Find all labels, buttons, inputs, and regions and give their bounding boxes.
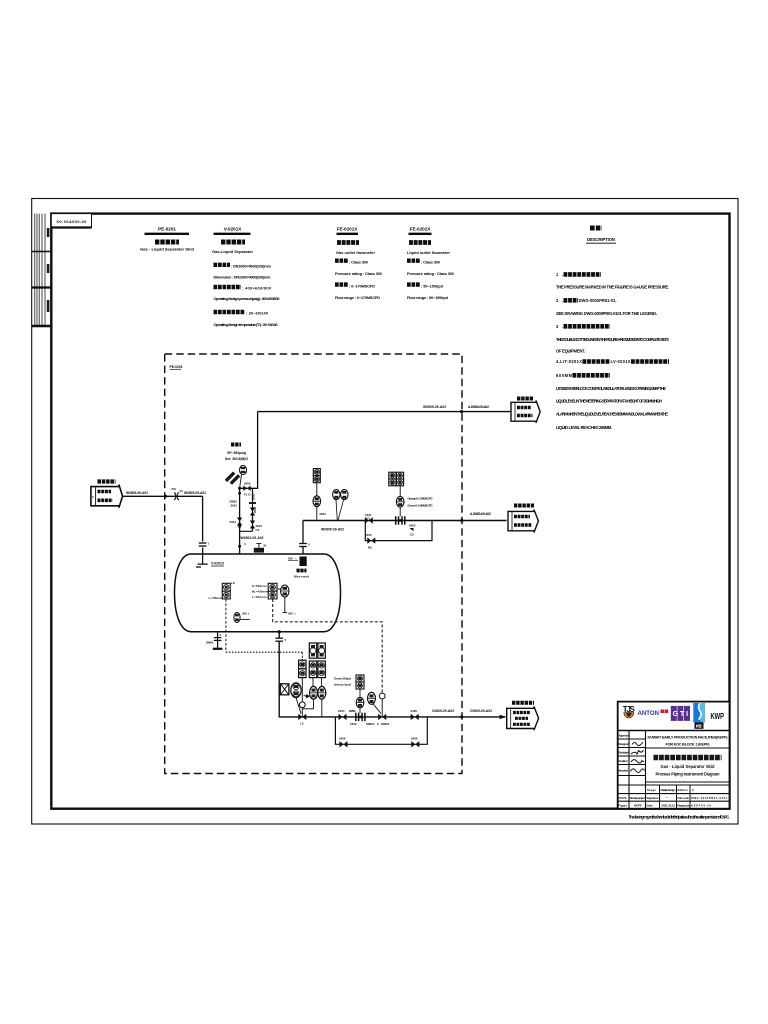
FIT bubble liquid [359, 689, 361, 697]
svg-text:ANTON: ANTON [638, 710, 660, 717]
svg-text:Stage: Stage [647, 788, 656, 792]
valve 2002 on flare branch [243, 486, 247, 491]
valve 2001 on PSV header [237, 518, 242, 522]
svg-text:Flow range : 0~170MSCFD: Flow range : 0~170MSCFD [335, 295, 380, 300]
logo row divider [618, 730, 730, 732]
header column 4: FE-0202X Liquid outlet flowmeter [407, 227, 454, 300]
svg-text:V-0201X: V-0201X [211, 562, 225, 566]
svg-text:KOC: KOC [696, 724, 703, 729]
svg-text:H=600mm: H=600mm [252, 584, 267, 588]
flange pair on liquid drop [275, 638, 283, 641]
svg-text:S0804: S0804 [381, 722, 390, 726]
svg-text:Operating /design pressure(psi: Operating /design pressure(psig) : 400×6… [214, 296, 280, 301]
valve 2406 on bypass [340, 741, 344, 747]
svg-text:Project code: Project code [677, 804, 690, 808]
flange pair on inlet riser [199, 543, 207, 546]
svg-text:W0805-09-A02: W0805-09-A02 [321, 528, 344, 532]
gauge glass LG square [222, 583, 230, 591]
pressure instrument stack PY [313, 469, 320, 476]
logo CTI purple blocks [671, 706, 690, 721]
leaders from gauges to line [336, 500, 344, 521]
svg-text:DWG-0000PR01-0101: DWG-0000PR01-0101 [691, 796, 728, 800]
svg-text:2405: 2405 [411, 709, 418, 713]
logo TJS crest [623, 705, 636, 718]
relief valve PSV symbol [225, 471, 240, 486]
gas bypass loop [365, 521, 432, 541]
drawing title chinese [654, 755, 722, 760]
wire: PSV leader to tee [240, 475, 242, 489]
svg-text:File code: File code [678, 796, 690, 800]
valve on purge branch lower [250, 521, 255, 525]
signer row lines [618, 739, 730, 801]
svg-text:L=300mm: L=300mm [252, 595, 267, 599]
valve NC on gas bypass [367, 537, 371, 543]
liquid FQI squares [356, 675, 364, 682]
logo anton chinese red [661, 710, 665, 714]
vessel V-0201X shell [175, 554, 341, 632]
svg-text:PE-0201: PE-0201 [170, 365, 183, 369]
level setpoint text block [252, 584, 268, 599]
svg-text:SEE DRAWING DWG-0000PR01-0101: SEE DRAWING DWG-0000PR01-0101 FOR THE LE… [556, 311, 657, 316]
valve 2404 on liquid line [339, 714, 343, 720]
svg-text:Set: 394.6(M)G: Set: 394.6(M)G [225, 457, 248, 461]
svg-text:Edition: Edition [678, 788, 688, 792]
transmitter LIT-0201X bubble [277, 588, 281, 590]
node: boundary crossing on inlet [164, 495, 167, 498]
svg-text:: 400×600/900: : 400×600/900 [242, 286, 271, 291]
spec break symbol [174, 492, 178, 500]
svg-text:Gas - Liquid Separator Skid: Gas - Liquid Separator Skid [140, 247, 195, 252]
svg-text:C0805-09-A02: C0805-09-A02 [470, 709, 492, 713]
FIT bubble on FE [399, 507, 401, 516]
svg-text:Detailed design: Detailed design [661, 788, 676, 792]
svg-text:Date: Date [647, 804, 654, 808]
svg-text:Develop project: Develop project [630, 796, 645, 800]
transmitter PIT bubble [316, 483, 318, 496]
svg-text:KEPF04-03: KEPF04-03 [691, 804, 712, 808]
svg-text:LIQUID LEVEL IN THE METERING S: LIQUID LEVEL IN THE METERING SEPARATOR A… [556, 399, 662, 404]
svg-text:OF EQUIPMENT.: OF EQUIPMENT. [556, 348, 585, 353]
svg-text:Figure: Figure [618, 804, 627, 808]
svg-text:t: t [295, 612, 296, 616]
svg-text:Approved: Approved [619, 734, 629, 738]
svg-text:Flow range : 50~150bpd: Flow range : 50~150bpd [407, 295, 449, 300]
gas outlet riser with flanges [302, 521, 304, 555]
mist eliminator [300, 557, 307, 567]
svg-text:Green:50bpd: Green:50bpd [334, 677, 351, 681]
connector: liquid to metering separator [507, 703, 539, 730]
wire: liquid outlet drop and main line [279, 632, 505, 717]
svg-text:0801: 0801 [320, 512, 327, 516]
svg-text:2001: 2001 [231, 504, 238, 508]
drain nozzle with blind [217, 632, 219, 649]
local gauges PI TI bubbles [333, 490, 340, 500]
svg-text:Wire mesh: Wire mesh [294, 575, 309, 579]
control valve LCV [299, 702, 305, 708]
wire: PSV header vertical into vessel [239, 488, 241, 554]
wire: gas outlet line [303, 520, 507, 522]
svg-text:Dimension : DN1000×4000(S/S)mm: Dimension : DN1000×4000(S/S)mm [214, 274, 272, 279]
LIT lower tap [284, 597, 286, 613]
svg-text:KWP: KWP [711, 711, 725, 721]
svg-text:W0805-09-A01: W0805-09-A01 [126, 491, 148, 495]
instrument bubble PSV tag [239, 465, 246, 474]
svg-text:X: X [92, 495, 94, 499]
svg-text:Process Piping Instrument Diag: Process Piping Instrument Diagram [656, 772, 720, 777]
svg-text:200: 200 [288, 612, 293, 616]
svg-text:C2: C2 [256, 528, 260, 532]
svg-text:DESCRIPTION: DESCRIPTION [587, 237, 615, 242]
svg-text:2402: 2402 [409, 524, 416, 528]
svg-text:KEPF: KEPF [634, 804, 642, 808]
wire: tee to flare riser [240, 412, 258, 489]
svg-text:t: t [296, 557, 297, 561]
svg-text:DN50: DN50 [206, 641, 214, 645]
svg-text:FL O: FL O [244, 493, 251, 497]
valve 2405 on liquid line [411, 714, 415, 720]
svg-text:Pressure rating : Class 300: Pressure rating : Class 300 [335, 271, 382, 276]
svg-text:KUWAIT EARLY PRODUCTION FACILI: KUWAIT EARLY PRODUCTION FACILITIES(KEPF) [648, 736, 729, 740]
LY relay squares [299, 660, 306, 669]
logo KOC blue flag [693, 703, 705, 729]
node boundary crossing liquid line [460, 715, 463, 718]
svg-text:2001: 2001 [230, 520, 237, 524]
svg-text:PE-0201: PE-0201 [158, 227, 176, 232]
svg-text:Green:0-1.0MMSCFD: Green:0-1.0MMSCFD [408, 504, 433, 508]
svg-text:300: 300 [288, 557, 293, 561]
svg-text:LIQUID LEVEL REACHES 250MM.: LIQUID LEVEL REACHES 250MM. [556, 425, 612, 430]
svg-text:The drawing may not be downloa: The drawing may not be downloaded to thi… [628, 815, 729, 820]
wires grid to bubbles and to line [312, 678, 314, 687]
svg-text:A.DN80-09-A02: A.DN80-09-A02 [468, 405, 489, 409]
svg-text:SP: 650psig: SP: 650psig [227, 451, 246, 455]
title block outer box [618, 702, 730, 809]
signal: LIT dashed to LV [273, 599, 383, 693]
svg-text:PG: PG [172, 487, 177, 491]
connector: to flare [511, 399, 540, 423]
node tee at PSV [238, 487, 241, 490]
svg-text:8MM: 8MM [349, 709, 356, 713]
node at vessel PSV nozzle [238, 545, 241, 548]
alarm squares 2x2 grid [309, 643, 316, 658]
relief valve PSV-0201X label [225, 445, 248, 462]
svg-text:Gas outlet flowmeter: Gas outlet flowmeter [336, 250, 375, 255]
valve on purge branch upper [250, 508, 255, 512]
svg-text:X0-00A000-00: X0-00A000-00 [56, 220, 86, 224]
wire: inlet line to vessel [123, 496, 203, 554]
outer border frame [32, 199, 738, 825]
svg-text:: 0~170MSCFD: : 0~170MSCFD [349, 283, 375, 288]
svg-text:00126: 00126 [618, 796, 626, 800]
node boundary crossing flare line [460, 410, 463, 413]
svg-text:C0805-09-A02: C0805-09-A02 [432, 709, 454, 713]
svg-text:W0805-09-A01: W0805-09-A01 [184, 491, 206, 495]
manway M nozzle [254, 548, 264, 553]
svg-text:2002: 2002 [252, 494, 256, 500]
svg-text:L=750mm: L=750mm [209, 596, 223, 600]
connector: gas to downstream [508, 506, 538, 533]
blind spade on purge branch [249, 502, 256, 504]
svg-text:: Class 300: : Class 300 [349, 259, 368, 264]
svg-text:2405: 2405 [411, 737, 418, 741]
displacer chamber LT squares [268, 583, 277, 591]
svg-text:Pressure rating : Class 300: Pressure rating : Class 300 [407, 271, 454, 276]
svg-text:Audited: Audited [619, 759, 628, 763]
FE-0202X orifice on liquid line [356, 713, 365, 721]
svg-text:: 30~60/140: : 30~60/140 [246, 311, 268, 316]
svg-text:ALARM WHEN THE LIQUID LEVEL RE: ALARM WHEN THE LIQUID LEVEL REACHES 600M… [556, 412, 668, 417]
node liquid outlet at vessel bottom [278, 630, 281, 633]
header column 3: FE-0201X Gas outlet flowmeter [335, 227, 382, 300]
svg-text:200: 200 [242, 612, 247, 616]
svg-text:C2: C2 [410, 533, 414, 537]
control valve LV-0201X [379, 693, 385, 699]
svg-text:600MM: 600MM [556, 373, 573, 378]
level gauge circle with leader [234, 613, 240, 623]
svg-text:Standard: Standard [618, 769, 628, 773]
bypass purge branch [240, 488, 253, 531]
notes header (DESCRIPTION) [586, 228, 616, 243]
signal: LG dashed down and dotted across [225, 599, 227, 652]
inner border frame [51, 214, 729, 809]
liquid bypass loop [335, 717, 427, 744]
svg-text:Signature: Signature [647, 796, 659, 800]
shared display squares FIC [389, 472, 396, 479]
svg-text:4.LIT-0201X: 4.LIT-0201X [556, 359, 582, 364]
svg-text:(2"): (2") [365, 516, 370, 520]
valve 2407 on bypass [411, 741, 415, 747]
svg-text:2021.03.13: 2021.03.13 [662, 804, 676, 808]
svg-text:(about:bpd): (about:bpd) [334, 683, 351, 687]
svg-text:2406: 2406 [339, 737, 346, 741]
svg-text:2403: 2403 [365, 533, 372, 537]
bottom table cells [660, 785, 691, 809]
svg-text:Liquid outlet flowmeter: Liquid outlet flowmeter [407, 250, 450, 255]
level controller LIC bubble pair [291, 683, 301, 698]
svg-text:DWG-0002PR01-01.: DWG-0002PR01-01. [579, 298, 617, 303]
top-left drawing number box [51, 214, 91, 228]
svg-text:Rechecked: Rechecked [619, 751, 629, 755]
svg-text:Operating /design temperature(: Operating /design temperature(°C) : 30~6… [214, 322, 278, 327]
left margin revision strip [35, 214, 45, 326]
positioner bubble LV [368, 692, 376, 704]
svg-text:S0804: S0804 [366, 722, 375, 726]
flow element FE-0201X orifice [396, 516, 405, 524]
signatures [631, 742, 645, 773]
svg-text:(2): (2) [180, 489, 183, 493]
svg-text:: Class 300: : Class 300 [421, 259, 440, 264]
svg-text:Designed: Designed [619, 742, 629, 746]
arrowhead into connector [500, 715, 507, 719]
svg-text:A.DN80-09-A02: A.DN80-09-A02 [470, 512, 491, 516]
equipment package dashed boundary [165, 354, 462, 774]
svg-text:Gas - Liquid Separator Skid: Gas - Liquid Separator Skid [661, 764, 715, 769]
svg-text:FOR KOC BLOCK 1 (KEPF): FOR KOC BLOCK 1 (KEPF) [666, 743, 711, 747]
inlet deflector baffle [196, 554, 208, 567]
svg-text:W0802-09-A02: W0802-09-A02 [241, 536, 264, 540]
title table verticals [629, 731, 646, 809]
notes text block [556, 272, 669, 430]
svg-text:W0805-09-A02: W0805-09-A02 [423, 405, 446, 409]
svg-text:: 50~150bpd: : 50~150bpd [421, 283, 444, 288]
svg-text:THE PRESSURE MARKED IN THE FIG: THE PRESSURE MARKED IN THE FIGURE IS GAU… [556, 284, 669, 289]
wire LY to valve [301, 678, 303, 702]
svg-text:THE DOUBLE DOTTED LINES IN THE: THE DOUBLE DOTTED LINES IN THE FIGURE AR… [556, 337, 669, 342]
svg-text:2002: 2002 [244, 481, 251, 485]
signer labels [618, 734, 628, 773]
svg-text:LIT-0202X INTERLOCK CONTROL RE: LIT-0202X INTERLOCK CONTROL REGULATOR LV… [556, 386, 666, 391]
svg-text:LV-0201X: LV-0201X [611, 359, 631, 364]
arrow signal into summer [303, 694, 310, 699]
svg-text:2003: 2003 [253, 507, 257, 513]
svg-text:t: t [248, 612, 249, 616]
svg-text:Gas-Liquid Separator: Gas-Liquid Separator [212, 249, 253, 254]
svg-text:Orange:0-1.7MMSCFD: Orange:0-1.7MMSCFD [408, 497, 433, 501]
svg-text:FE-0201X: FE-0201X [337, 227, 359, 232]
wire: flare header (top) [258, 411, 511, 413]
node boundary crossing gas line [460, 519, 463, 522]
gauge bubbles below grid [310, 686, 318, 699]
svg-text:LG: LG [231, 581, 235, 585]
valve 2403 on gas line [365, 517, 369, 523]
svg-text:2402: 2402 [350, 722, 357, 726]
connector: inlet from heating furnace [91, 482, 123, 508]
svg-text:: DN1000×4000(S/S)mm: : DN1000×4000(S/S)mm [231, 264, 272, 269]
svg-text:NL=450mm: NL=450mm [252, 589, 268, 593]
interlock square with X [280, 684, 289, 695]
svg-text:FE-0202X: FE-0202X [410, 227, 432, 232]
strip rotated labels [47, 228, 50, 237]
svg-text:V-0201X: V-0201X [224, 227, 243, 232]
svg-text:GTI: GTI [673, 711, 689, 718]
header column 1: PE-0201 Gas-Liquid Separator Skid [140, 227, 195, 252]
header column 2: V-0201X Gas-Liquid Separator specs [212, 227, 280, 328]
svg-text:2404: 2404 [338, 709, 345, 713]
